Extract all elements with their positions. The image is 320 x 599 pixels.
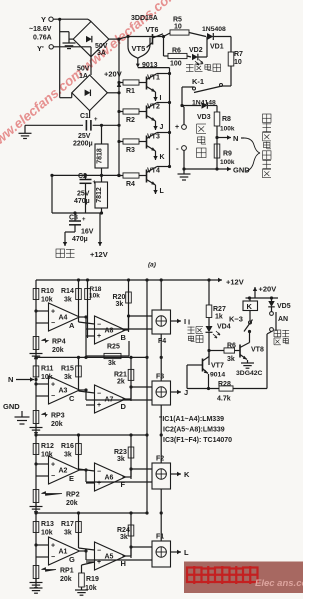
wire A-col output (80, 550, 87, 552)
wire bridge2 right to +20V rail (107, 92, 119, 94)
svg-text:10k: 10k (41, 530, 53, 537)
svg-text:9013: 9013 (142, 62, 158, 69)
svg-text:R28: R28 (218, 381, 231, 388)
svg-text:VD3: VD3 (197, 114, 211, 121)
node N output (215, 136, 218, 139)
wire op-amp input stubs (36, 383, 49, 385)
svg-text:L: L (160, 188, 165, 195)
svg-text:Elec ans.co: Elec ans.co (255, 578, 303, 589)
svg-text:3k: 3k (117, 456, 125, 463)
power +12V arrow (207, 278, 210, 281)
node J output arrow (155, 121, 157, 130)
svg-text:"IC1(A1~A4):LM339: "IC1(A1~A4):LM339 (159, 416, 224, 423)
svg-text:J: J (160, 124, 164, 131)
svg-text:R3: R3 (126, 147, 135, 154)
node L output arrow (155, 185, 157, 194)
svg-text:100: 100 (170, 61, 182, 68)
wire gate inputs (85, 551, 87, 560)
svg-text:A1: A1 (59, 549, 68, 556)
power +20V arrow (117, 82, 121, 87)
svg-text:Y: Y (41, 15, 46, 24)
svg-text:+: + (51, 382, 55, 389)
svg-text:R13: R13 (41, 521, 54, 528)
ground-wire arrow and label (64, 232, 66, 246)
node I gate output arrow (171, 320, 182, 322)
op-amp A3 (49, 376, 80, 404)
capacitor C3 470u 16V (74, 213, 76, 221)
svg-text:7812: 7812 (96, 187, 103, 203)
svg-text:-: - (176, 144, 179, 153)
potentiometer RP2 20k (33, 490, 39, 503)
svg-text:3k: 3k (64, 374, 72, 381)
svg-text:IC3(F1~F4): TC14070: IC3(F1~F4): TC14070 (163, 437, 232, 444)
svg-text:R16: R16 (61, 443, 74, 450)
wire lower row (52, 212, 102, 214)
svg-text:I: I (188, 318, 190, 327)
svg-text:−: − (97, 548, 101, 555)
svg-text:3k: 3k (64, 452, 72, 459)
svg-text:3k: 3k (227, 356, 235, 363)
svg-text:+: + (51, 462, 55, 469)
svg-text:A4: A4 (59, 315, 68, 322)
op-amp A8 (95, 316, 126, 344)
svg-text:−: − (51, 393, 55, 400)
xor gate F3 (152, 381, 171, 405)
resistor R11 10k (33, 366, 39, 377)
resistor R13 10k (33, 522, 39, 533)
svg-text:−: − (97, 391, 101, 398)
wire AN to R28 (266, 334, 268, 389)
power +20V rail (246, 297, 279, 299)
svg-text:RP2: RP2 (66, 492, 80, 499)
wire row supply rail (36, 356, 147, 358)
regulator 7818 (95, 144, 108, 168)
resistor R18 10k (87, 280, 89, 338)
svg-text:R2: R2 (126, 117, 135, 124)
ground pot (35, 503, 37, 507)
resistor R3 (123, 139, 139, 144)
svg-text:+20V: +20V (104, 70, 122, 79)
wire A-col output (80, 316, 87, 318)
svg-text:+12V: +12V (90, 250, 108, 259)
svg-text:K−3: K−3 (229, 315, 243, 324)
op-amp A2 (49, 456, 80, 484)
resistor R20 3k (128, 280, 130, 332)
svg-text:1k: 1k (215, 314, 223, 321)
svg-text:(a): (a) (148, 262, 156, 269)
ground left rail bottom (35, 584, 37, 588)
potentiometer RP1 20k (33, 566, 39, 579)
svg-text:R19: R19 (86, 576, 99, 583)
node K gate output arrow (171, 473, 182, 475)
svg-text:B: B (121, 333, 127, 342)
wire gate supply stubs (160, 280, 162, 310)
wire switch to battery plus (181, 87, 183, 106)
svg-text:RP3: RP3 (51, 413, 65, 420)
svg-text:470µ: 470µ (72, 236, 88, 243)
svg-text:RP4: RP4 (52, 339, 66, 346)
wire +12V distribution vertical (146, 280, 148, 513)
potentiometer RP4 20k (33, 337, 39, 350)
resistor R1 (123, 80, 139, 85)
wire R27 feed vertical (208, 280, 210, 305)
ground pot (35, 579, 37, 583)
wire R6 tap (163, 37, 165, 57)
svg-text:F4: F4 (158, 338, 166, 345)
wire left supply rail (35, 280, 37, 584)
node GND output (215, 167, 218, 170)
wire row supply rail (36, 512, 147, 514)
wire row supply rail (36, 434, 147, 436)
svg-text:L: L (184, 548, 189, 557)
wire R28 bottom run (186, 365, 188, 389)
bridge rectifier B2 50V 1A (72, 75, 108, 111)
resistor R15 3k (78, 357, 80, 391)
svg-text:R25: R25 (107, 344, 120, 351)
svg-text:R12: R12 (41, 443, 54, 450)
svg-text:VT7: VT7 (211, 363, 224, 370)
wire op-amp input stubs (36, 544, 49, 546)
svg-text:VT5: VT5 (132, 44, 146, 53)
svg-text:C2: C2 (78, 173, 87, 180)
resistor R17 3k (78, 513, 80, 548)
wire gate inputs (85, 470, 87, 482)
junction dot on Y wire (58, 18, 61, 21)
svg-text:3DD15A: 3DD15A (131, 15, 158, 22)
op-amp A4 (49, 303, 80, 331)
LED VD4 overcharge (206, 326, 213, 332)
svg-text:50V: 50V (77, 66, 90, 73)
svg-text:F2: F2 (156, 456, 164, 463)
wire Y-prime rail to bridge2 left (71, 93, 73, 98)
svg-text:R5: R5 (173, 17, 182, 24)
resistor R4 (123, 173, 139, 178)
svg-text:20k: 20k (52, 347, 64, 354)
capacitor C1 2200u 25V (25, 124, 119, 126)
svg-text:D: D (121, 402, 127, 411)
watermark diagonal www.elecfans.com (0, 0, 181, 154)
node K output arrow (155, 151, 157, 160)
svg-text:VD5: VD5 (277, 303, 291, 310)
svg-text:+: + (82, 217, 86, 223)
svg-text:VD1: VD1 (210, 44, 224, 51)
svg-text:A6: A6 (105, 475, 114, 482)
xor gate F2 (152, 463, 171, 489)
svg-text:+: + (175, 124, 179, 131)
svg-text:3k: 3k (64, 297, 72, 304)
svg-text:A2: A2 (59, 468, 68, 475)
svg-text:N: N (8, 375, 13, 384)
op-amp A5 (95, 542, 126, 570)
op-amp A1 (49, 537, 80, 565)
svg-text:10: 10 (234, 59, 242, 66)
wire op-amp input stubs (36, 310, 49, 312)
svg-text:−: − (51, 320, 55, 327)
svg-text:+20V: +20V (259, 285, 277, 294)
svg-text:+: + (94, 117, 98, 123)
svg-text:20k: 20k (51, 421, 63, 428)
transistor VT5 3DD15A (128, 37, 150, 59)
svg-text:−: − (97, 322, 101, 329)
svg-text:R10: R10 (41, 288, 54, 295)
svg-text:Y': Y' (37, 44, 44, 53)
power +12V output arrow (99, 213, 101, 246)
relay coil K (243, 301, 258, 311)
resistor R24 3k (130, 513, 132, 558)
svg-text:R27: R27 (213, 306, 226, 313)
svg-text:N: N (233, 134, 238, 143)
wire battery plus rail (182, 106, 184, 108)
svg-text:10k: 10k (85, 585, 97, 592)
svg-text:K-1: K-1 (192, 77, 204, 86)
svg-text:RP1: RP1 (60, 568, 74, 575)
node J gate output arrow (171, 391, 182, 393)
svg-text:3k: 3k (120, 534, 128, 541)
diode VD5 (271, 298, 273, 301)
ground pot (35, 424, 37, 428)
resistor R9 100k (214, 144, 220, 158)
wire Y to bridge (88, 19, 91, 21)
svg-text:AN: AN (278, 316, 288, 323)
svg-text:I: I (184, 317, 186, 326)
svg-text:10k: 10k (41, 297, 53, 304)
svg-text:R4: R4 (126, 181, 135, 188)
junction R6 node (207, 349, 210, 352)
wire +12V top rail (36, 279, 209, 281)
svg-text:K: K (247, 302, 253, 311)
svg-text:+: + (97, 480, 101, 487)
svg-text:A3: A3 (59, 388, 68, 395)
wire gate supply stubs (160, 435, 162, 463)
svg-text:1N5408: 1N5408 (202, 26, 226, 33)
svg-text:F3: F3 (156, 374, 164, 381)
svg-text:F1: F1 (156, 534, 164, 541)
svg-text:C: C (69, 394, 75, 403)
svg-text:100k: 100k (220, 126, 235, 133)
wire bridge1 to bridge2 (90, 57, 92, 75)
wire bridge2 bottom to C1 node (89, 111, 91, 126)
svg-text:K: K (160, 154, 165, 161)
op-amp A7 (95, 385, 126, 413)
wire gate inputs (85, 317, 87, 329)
resistor R12 10k (33, 444, 39, 455)
resistor R19 10k (81, 565, 83, 573)
svg-text:VD4: VD4 (217, 324, 231, 331)
svg-text:−: − (51, 554, 55, 561)
svg-text:−: − (97, 469, 101, 476)
svg-text:10k: 10k (89, 293, 100, 300)
regulator 7812 (95, 182, 108, 208)
wire VT collector rail (169, 68, 171, 166)
svg-text:20k: 20k (66, 500, 78, 507)
xor gate F1 (152, 541, 171, 567)
svg-text:R8: R8 (222, 116, 231, 123)
svg-text:A: A (69, 321, 75, 330)
svg-text:R7: R7 (234, 51, 243, 58)
svg-text:R15: R15 (61, 365, 74, 372)
svg-text:C1: C1 (80, 113, 89, 120)
svg-text:−: − (51, 473, 55, 480)
svg-text:E: E (69, 474, 74, 483)
svg-text:3k: 3k (64, 530, 72, 537)
wire VD2 to VD1 node (206, 37, 208, 58)
wire A-col output (80, 389, 87, 391)
ground left of C1 (24, 125, 26, 133)
wire VT5 emitter to collector rail (138, 67, 170, 69)
svg-text:R11: R11 (41, 365, 54, 372)
capacitor C2 470u 25V (85, 175, 87, 179)
svg-text:+: + (97, 402, 101, 409)
resistor R16 3k (78, 435, 80, 469)
pushbutton AN (270, 312, 274, 316)
wire gate inputs (85, 390, 87, 400)
svg-text:IC2(A5~A8):LM339: IC2(A5~A8):LM339 (163, 427, 225, 434)
wire center-tap vertical (59, 19, 61, 97)
resistor R2 (123, 109, 139, 114)
resistor R21 2k (130, 357, 132, 401)
label to interval detection circuit (244, 138, 260, 171)
svg-text:G: G (69, 555, 75, 564)
wire gate supply stubs (160, 357, 162, 381)
svg-text:2k: 2k (117, 378, 125, 385)
ground center tap (60, 31, 69, 33)
wire main +V rail from bridge1 (109, 38, 119, 40)
resistor R27 1k (206, 305, 212, 318)
svg-text:GND: GND (233, 166, 250, 175)
resistor R23 3k (130, 435, 132, 479)
svg-text:R1: R1 (126, 88, 135, 95)
wire regulator output row (52, 174, 119, 176)
svg-text:25V: 25V (77, 191, 90, 198)
wire gate supply stubs (160, 513, 162, 541)
svg-text:50V: 50V (95, 43, 108, 50)
svg-text:4.7k: 4.7k (217, 396, 231, 403)
svg-text:R9: R9 (223, 151, 232, 158)
svg-text:R23: R23 (114, 449, 127, 456)
xor gate F4 (152, 310, 171, 334)
svg-text:2200µ: 2200µ (73, 141, 93, 148)
svg-text:25V: 25V (78, 133, 91, 140)
resistor R10 10k (33, 289, 39, 300)
svg-text:3DG42C: 3DG42C (236, 370, 263, 377)
svg-text:+: + (51, 543, 55, 550)
bridge rectifier B1 50V 3A (73, 22, 109, 57)
svg-text:VD2: VD2 (189, 47, 203, 54)
svg-text:1A: 1A (79, 73, 88, 80)
op-amp A6 (95, 463, 126, 491)
svg-text:+12V: +12V (226, 278, 244, 287)
node L gate output arrow (171, 551, 182, 553)
svg-text:9014: 9014 (210, 372, 225, 379)
label connect battery (197, 124, 207, 134)
svg-text:+: + (97, 333, 101, 340)
wire A-col output (80, 469, 87, 471)
svg-text:470µ: 470µ (74, 198, 90, 205)
svg-text:3k: 3k (108, 360, 116, 367)
svg-text:GND: GND (3, 402, 20, 411)
svg-text:J: J (184, 388, 188, 397)
ground pot (35, 350, 37, 354)
svg-text:R14: R14 (61, 288, 74, 295)
svg-text:3k: 3k (116, 301, 124, 308)
ground battery minus (182, 167, 185, 170)
svg-text:F: F (121, 480, 126, 489)
resistor R8 100k (216, 106, 218, 113)
svg-text:~18.6V: ~18.6V (29, 26, 52, 33)
svg-text:3A: 3A (97, 50, 106, 57)
wire op-amp input stubs (36, 463, 49, 465)
svg-text:K: K (184, 470, 190, 479)
wire bridge1 left to ground tap (69, 38, 73, 40)
potentiometer RP3 20k (33, 411, 39, 424)
svg-text:7818: 7818 (97, 148, 104, 164)
label start button (274, 330, 281, 337)
resistor R14 3k (78, 280, 80, 322)
svg-text:20k: 20k (60, 576, 72, 583)
svg-text:R20: R20 (113, 294, 126, 301)
svg-text:C3: C3 (69, 215, 78, 222)
svg-text:R24: R24 (117, 527, 130, 534)
svg-text:R21: R21 (114, 371, 127, 378)
svg-text:16V: 16V (81, 229, 94, 236)
watermark banner elecfans bottom-right (184, 562, 303, 594)
svg-text:I: I (160, 95, 162, 102)
label charge indicator (186, 64, 194, 72)
svg-text:R17: R17 (61, 521, 74, 528)
svg-text:0.76A: 0.76A (33, 35, 52, 42)
svg-text:VT8: VT8 (251, 347, 264, 354)
svg-text:VT6: VT6 (146, 27, 159, 34)
node I output arrow (155, 92, 157, 101)
svg-text:+: + (51, 309, 55, 316)
